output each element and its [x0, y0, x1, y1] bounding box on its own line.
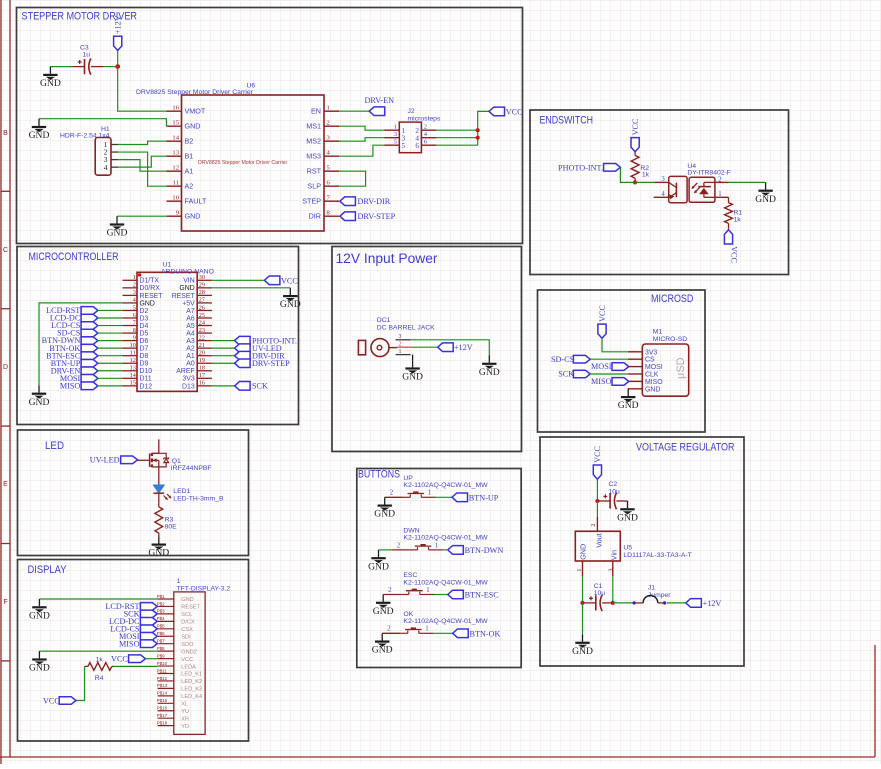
net flag +12V (DC1)	[438, 343, 473, 352]
wire PHOTO-INT to node	[620, 167, 635, 182]
wire LCD-CS to U1	[98, 325, 123, 327]
svg-text:SD-CS: SD-CS	[551, 355, 575, 364]
svg-text:GND: GND	[578, 544, 587, 560]
svg-text:GND: GND	[179, 285, 194, 292]
svg-text:30: 30	[199, 274, 205, 281]
svg-text:GND: GND	[479, 367, 500, 378]
svg-text:MS3: MS3	[306, 152, 321, 161]
svg-text:GND: GND	[280, 299, 301, 310]
svg-text:24: 24	[199, 319, 205, 326]
wire SD-CS to CS	[590, 358, 628, 360]
ground at OK	[372, 633, 393, 655]
svg-text:A2: A2	[186, 346, 195, 353]
svg-text:GND: GND	[181, 597, 193, 603]
svg-text:4: 4	[104, 163, 108, 172]
svg-text:P$17: P$17	[157, 713, 168, 718]
wire U1 GND pin29	[212, 287, 290, 289]
svg-text:GND: GND	[368, 561, 389, 572]
regulator U5 LD1117AL-33-TA3-A-T	[575, 524, 691, 577]
svg-text:GND: GND	[645, 386, 660, 393]
transistor Q1 IRFZ44NPBF	[138, 439, 212, 471]
net flag BTN-OK (U1)	[49, 344, 98, 353]
wire LED1 to R3	[158, 493, 160, 507]
svg-text:CSX: CSX	[181, 627, 193, 633]
supply VCC (microsd)	[598, 305, 607, 339]
net flag DRV-STEP at DIR	[340, 212, 396, 221]
svg-text:4: 4	[133, 297, 136, 304]
net flag MOSI (TFT)	[119, 632, 157, 641]
svg-text:A4: A4	[186, 330, 195, 337]
svg-text:ESC: ESC	[403, 572, 417, 579]
svg-text:1: 1	[425, 626, 428, 633]
wire RST to SLP	[339, 171, 366, 186]
svg-text:2: 2	[387, 626, 391, 633]
svg-text:1: 1	[399, 349, 402, 355]
svg-text:RESET: RESET	[172, 293, 196, 300]
svg-text:1: 1	[718, 191, 721, 198]
optical interrupter U4 DY-ITR8402-F	[654, 163, 731, 203]
svg-text:1: 1	[428, 490, 431, 497]
svg-text:C: C	[3, 247, 8, 254]
led block frame	[18, 430, 249, 556]
svg-text:D3: D3	[140, 315, 149, 322]
svg-text:14: 14	[172, 134, 179, 141]
net flag BTN-UP (U1)	[51, 359, 98, 368]
ground at DWN	[368, 550, 389, 572]
wire MISO to U1	[98, 385, 123, 387]
svg-text:J2: J2	[408, 108, 415, 115]
wire H1 pin1 to B2	[118, 141, 166, 144]
svg-text:GND: GND	[572, 646, 593, 657]
svg-text:LEDA: LEDA	[181, 664, 196, 670]
svg-text:Vin: Vin	[609, 550, 618, 560]
svg-text:GND: GND	[374, 509, 395, 520]
svg-text:DRV8825 Stepper Motor Driver C: DRV8825 Stepper Motor Driver Carrier	[198, 160, 288, 166]
wire VCC to 3V3	[602, 338, 628, 352]
svg-text:D12: D12	[140, 383, 153, 390]
wire gnd to C3	[50, 66, 73, 68]
svg-text:23: 23	[199, 327, 205, 334]
ground at TFT P$1	[29, 599, 50, 621]
svg-text:25: 25	[199, 312, 205, 319]
wire U1 GND pin4	[39, 303, 123, 386]
svg-text:ENDSWITCH: ENDSWITCH	[540, 115, 594, 127]
wire SCK to CLK	[590, 373, 628, 375]
net flag SD-CS (U1)	[57, 329, 98, 338]
svg-text:MISO: MISO	[60, 381, 81, 390]
ground at U1 pin29	[280, 288, 301, 310]
svg-text:D11: D11	[140, 376, 152, 383]
wire MS3 to J2 pin5	[339, 145, 385, 156]
wire DWN to flag	[443, 549, 448, 551]
svg-text:1: 1	[133, 274, 136, 281]
net flag VCC (J2)	[489, 107, 523, 116]
svg-text:B2: B2	[185, 137, 194, 146]
svg-text:6: 6	[415, 142, 419, 150]
svg-text:UV-LED: UV-LED	[90, 456, 120, 465]
svg-text:B: B	[3, 130, 8, 137]
svg-text:1k: 1k	[734, 217, 742, 224]
wire DRV-EN to U1	[98, 370, 123, 372]
wire A pin to UV-LED	[212, 347, 235, 349]
ground at pin 15	[29, 119, 50, 141]
wire R3 to gnd	[158, 533, 160, 536]
svg-text:VCC: VCC	[506, 107, 523, 116]
svg-text:VIN: VIN	[183, 278, 195, 285]
svg-text:+12V: +12V	[454, 343, 473, 352]
svg-text:SCK: SCK	[558, 370, 574, 379]
svg-text:P$8: P$8	[157, 646, 165, 651]
svg-text:P$12: P$12	[157, 676, 168, 681]
svg-text:SCL: SCL	[181, 612, 192, 618]
svg-text:MISO: MISO	[591, 377, 612, 386]
wire H1 pin2 to A2	[118, 152, 166, 186]
wire DC1 pin1 to gnd	[412, 355, 414, 361]
svg-text:5: 5	[133, 304, 136, 311]
ground at U1 pin4	[29, 385, 50, 407]
wire GND pin 15	[39, 119, 166, 127]
microcontroller block frame	[17, 247, 299, 425]
supply VCC (R2)	[631, 118, 640, 152]
net flag +12V (vreg)	[686, 599, 722, 608]
svg-text:F: F	[3, 599, 7, 606]
svg-text:D5: D5	[140, 330, 149, 337]
svg-text:LD1117AL-33-TA3-A-T: LD1117AL-33-TA3-A-T	[623, 552, 691, 559]
svg-text:2: 2	[718, 176, 722, 183]
ground at M1	[618, 389, 639, 411]
junction J2 row2	[476, 136, 480, 140]
net flag DRV-DIR at STEP	[340, 197, 391, 206]
svg-text:K2-1102AQ-Q4CW-01_MW: K2-1102AQ-Q4CW-01_MW	[403, 618, 488, 625]
svg-text:28: 28	[199, 289, 205, 296]
svg-text:D1/TX: D1/TX	[140, 278, 160, 285]
svg-text:80E: 80E	[165, 524, 178, 531]
svg-text:P$2: P$2	[157, 601, 165, 606]
svg-text:1: 1	[435, 542, 438, 549]
net flag MOSI (U1)	[60, 374, 98, 383]
wire EN to flag	[339, 110, 369, 112]
buttons block frame	[357, 469, 521, 668]
svg-text:GND: GND	[185, 212, 201, 221]
ground at pin 9	[107, 216, 128, 238]
svg-text:D2: D2	[140, 308, 149, 315]
net flag VCC (R4)	[43, 696, 76, 705]
net flag LCD-CS (U1)	[51, 321, 98, 330]
svg-text:E: E	[3, 481, 8, 488]
svg-text:BTN-OK: BTN-OK	[470, 629, 501, 638]
svg-text:DIR: DIR	[309, 212, 321, 221]
svg-text:SCK: SCK	[252, 382, 268, 391]
svg-text:14: 14	[130, 372, 136, 379]
svg-text:C3: C3	[80, 45, 89, 52]
svg-text:OK: OK	[403, 611, 413, 618]
wire +12V supply to node	[117, 51, 119, 67]
net flag BTN-ESC (U1)	[46, 351, 98, 360]
wire MOSI to U1	[98, 377, 123, 379]
IC U1 ARDUINO NANO	[123, 262, 214, 392]
net flag BTN-DWN (U1)	[42, 336, 98, 345]
svg-text:2: 2	[388, 587, 392, 594]
svg-text:DRV-EN: DRV-EN	[365, 96, 395, 105]
svg-text:GND: GND	[29, 610, 50, 621]
svg-text:A7: A7	[186, 308, 195, 315]
ground at TFT GND2	[29, 651, 50, 673]
svg-text:VCC: VCC	[181, 657, 193, 663]
svg-text:VCC: VCC	[281, 276, 298, 285]
resistor R4 1k	[85, 657, 115, 683]
svg-text:Vout: Vout	[594, 533, 603, 547]
wire LCD-RST to U1	[98, 309, 123, 311]
stepper motor driver block frame	[17, 8, 523, 244]
svg-text:M1: M1	[653, 329, 663, 336]
svg-text:SDO: SDO	[181, 642, 194, 648]
svg-text:SDI: SDI	[181, 634, 191, 640]
wire GND pin 9	[117, 215, 167, 217]
wire DC1 pin3 to gnd	[411, 340, 490, 356]
net flag LCD-DC (U1)	[50, 314, 98, 323]
svg-text:EN: EN	[311, 107, 321, 116]
net flag DRV-DIR (U1 right)	[235, 351, 286, 360]
supply +12V	[114, 15, 123, 50]
svg-text:MS2: MS2	[306, 137, 321, 146]
wire R4 to VCC	[76, 666, 85, 700]
svg-text:RESET: RESET	[181, 605, 200, 611]
svg-text:GND2: GND2	[181, 649, 197, 655]
endswitch block frame	[530, 110, 789, 275]
svg-text:13: 13	[130, 365, 136, 372]
ground at ESC	[373, 595, 394, 617]
svg-text:27: 27	[199, 297, 205, 304]
wire C1 to gnd	[582, 603, 584, 635]
wire VIN to VCC	[212, 279, 265, 281]
svg-text:A1: A1	[186, 353, 195, 360]
net flag PHOTO-INT.	[558, 163, 620, 172]
net flag BTN-DWN	[448, 546, 504, 555]
svg-text:P$11: P$11	[157, 668, 167, 673]
svg-text:MOSI: MOSI	[645, 364, 663, 371]
svg-text:22: 22	[199, 334, 205, 341]
wire VCC flag to TFT	[145, 658, 157, 660]
svg-text:GND: GND	[617, 512, 638, 523]
svg-text:MICROSD: MICROSD	[651, 293, 694, 305]
svg-text:A5: A5	[186, 323, 195, 330]
wire OK to flag	[433, 632, 452, 634]
svg-text:A1: A1	[185, 167, 194, 176]
wire Vin node to J1	[613, 602, 635, 604]
junction C1 left	[580, 601, 584, 605]
net flag SCK (TFT)	[124, 610, 158, 619]
resistor R1 1k	[725, 197, 743, 230]
wire LCD-DC to U1	[98, 317, 123, 319]
svg-text:DC1: DC1	[377, 317, 391, 324]
svg-text:13: 13	[172, 149, 179, 156]
net flag MOSI (M1)	[591, 362, 629, 371]
junction R2/PHOTO-INT	[633, 180, 637, 184]
svg-text:16: 16	[172, 104, 179, 111]
svg-text:YD: YD	[181, 724, 189, 730]
svg-text:GND: GND	[140, 300, 155, 307]
display block frame	[18, 560, 249, 742]
svg-text:P$10: P$10	[157, 661, 168, 666]
svg-text:STEP: STEP	[302, 197, 321, 206]
svg-text:LED_K4: LED_K4	[181, 694, 202, 700]
svg-text:MISO: MISO	[119, 639, 140, 648]
svg-text:LED_K3: LED_K3	[181, 687, 202, 693]
svg-text:D9: D9	[140, 361, 149, 368]
svg-text:MOSI: MOSI	[591, 362, 612, 371]
svg-text:MICRO-SD: MICRO-SD	[653, 336, 687, 343]
net flag BTN-OK	[453, 629, 501, 638]
wire A pin to DRV-DIR	[212, 355, 235, 357]
svg-text:GND: GND	[40, 78, 61, 89]
svg-text:XR: XR	[181, 716, 189, 722]
net flag SCK (M1)	[558, 370, 590, 379]
net flag DRV-EN	[365, 96, 395, 116]
junction C2	[595, 499, 599, 503]
microsd block frame	[538, 290, 706, 432]
svg-text:1: 1	[327, 104, 330, 111]
svg-text:A0: A0	[186, 361, 195, 368]
svg-text:VCC: VCC	[111, 654, 128, 663]
svg-text:GND: GND	[618, 400, 639, 411]
module TFT-DISPLAY-3.2	[157, 578, 231, 734]
svg-text:2: 2	[399, 342, 402, 348]
wire BTN-UP to U1	[98, 362, 123, 364]
wire TFT GND2 to gnd	[39, 650, 157, 652]
LED LED1 LED-TH-3mm_B	[153, 484, 224, 502]
svg-text:18: 18	[199, 365, 205, 372]
svg-text:LED1: LED1	[173, 488, 190, 495]
capacitor C1 10u	[583, 583, 613, 611]
net flag BTN-UP	[452, 493, 499, 502]
svg-text:2: 2	[424, 124, 427, 131]
svg-text:XL: XL	[181, 702, 188, 708]
wire ESC to flag	[434, 594, 447, 596]
wire BTN-OK to U1	[98, 347, 123, 349]
svg-text:5: 5	[402, 142, 406, 150]
svg-text:BTN-UP: BTN-UP	[469, 493, 499, 502]
svg-text:CLK: CLK	[645, 372, 659, 379]
svg-text:HDR-F-2.54 1x4: HDR-F-2.54 1x4	[60, 133, 110, 140]
pushbutton DWN K2-1102AQ-Q4CW-01_MW	[379, 527, 489, 550]
ground at C2	[617, 501, 638, 523]
capacitor C3 1u	[73, 45, 103, 75]
svg-text:2: 2	[390, 490, 394, 497]
wire node to U5 Vout	[596, 501, 598, 531]
svg-text:GND: GND	[107, 228, 128, 239]
svg-text:+12V: +12V	[114, 15, 123, 34]
svg-text:10: 10	[130, 342, 136, 349]
svg-text:1k: 1k	[96, 657, 104, 664]
svg-text:2: 2	[327, 119, 330, 126]
svg-text:12V Input Power: 12V Input Power	[336, 251, 439, 266]
svg-text:12: 12	[172, 164, 179, 171]
svg-text:D: D	[3, 364, 8, 371]
svg-text:J1: J1	[648, 585, 655, 592]
svg-text:2: 2	[590, 524, 597, 527]
svg-text:15: 15	[130, 380, 136, 387]
svg-text:D10: D10	[140, 368, 153, 375]
svg-text:D8: D8	[140, 353, 149, 360]
svg-text:A3: A3	[186, 338, 195, 345]
svg-text:7: 7	[133, 319, 136, 326]
svg-text:10: 10	[172, 194, 179, 201]
svg-text:10u: 10u	[594, 590, 606, 597]
svg-text:C2: C2	[609, 481, 618, 488]
svg-text:26: 26	[199, 304, 205, 311]
svg-text:DC BARREL JACK: DC BARREL JACK	[377, 325, 435, 332]
svg-text:P$15: P$15	[157, 698, 168, 703]
svg-text:DRV-STEP: DRV-STEP	[358, 212, 396, 221]
ground at C3	[40, 67, 61, 89]
svg-text:1: 1	[177, 578, 181, 585]
svg-text:GND: GND	[185, 122, 201, 131]
svg-text:U5: U5	[623, 545, 632, 552]
net flag MISO (U1)	[60, 381, 98, 390]
pushbutton ESC K2-1102AQ-Q4CW-01_MW	[383, 572, 488, 595]
svg-text:P$4: P$4	[157, 616, 165, 621]
connector H1 HDR-F-2.54 1x4	[60, 126, 118, 175]
junction node +12V	[115, 64, 120, 69]
svg-text:GND: GND	[29, 397, 50, 408]
svg-text:GND: GND	[148, 548, 169, 559]
svg-text:1k: 1k	[642, 172, 650, 179]
wire A pin to SCK	[212, 385, 235, 387]
svg-text:VCC: VCC	[43, 696, 60, 705]
wire BTN-ESC to U1	[98, 355, 123, 357]
module M1 MICRO-SD	[628, 329, 689, 397]
svg-text:11: 11	[173, 179, 179, 186]
svg-text:17: 17	[199, 372, 205, 379]
wire DC1 pin2 to +12V	[411, 346, 438, 348]
svg-text:20: 20	[199, 350, 205, 357]
supply VCC (R1)	[724, 230, 738, 264]
svg-text:K2-1102AQ-Q4CW-01_MW: K2-1102AQ-Q4CW-01_MW	[403, 535, 488, 542]
svg-text:R1: R1	[734, 210, 743, 217]
voltage regulator block frame	[540, 437, 744, 666]
svg-text:DRV8825 Stepper Motor Driver C: DRV8825 Stepper Motor Driver Carrier	[136, 89, 254, 96]
svg-text:MISO: MISO	[645, 379, 663, 386]
svg-text:MS1: MS1	[306, 122, 321, 131]
svg-text:2: 2	[397, 542, 401, 549]
svg-text:P$1: P$1	[157, 594, 165, 599]
svg-text:D4: D4	[140, 323, 149, 330]
supply VCC (vreg)	[593, 445, 602, 479]
svg-text:RST: RST	[307, 167, 322, 176]
pushbutton OK K2-1102AQ-Q4CW-01_MW	[382, 611, 488, 634]
svg-text:P$13: P$13	[157, 683, 168, 688]
svg-text:3V3: 3V3	[645, 349, 657, 356]
net flag MISO (TFT)	[119, 639, 157, 648]
svg-text:GND: GND	[29, 130, 50, 141]
connector DC1 DC BARREL JACK	[358, 317, 435, 357]
svg-text:K2-1102AQ-Q4CW-01_MW: K2-1102AQ-Q4CW-01_MW	[403, 482, 488, 489]
svg-text:P$14: P$14	[157, 691, 168, 696]
svg-text:P$16: P$16	[157, 706, 168, 711]
svg-text:DISPLAY: DISPLAY	[28, 564, 67, 576]
svg-text:IRFZ44NPBF: IRFZ44NPBF	[171, 465, 212, 472]
svg-text:BTN-DWN: BTN-DWN	[465, 546, 504, 555]
ground at DC1 pin3	[479, 356, 500, 378]
svg-text:ARDUINO NANO: ARDUINO NANO	[161, 268, 214, 275]
svg-text:1: 1	[576, 569, 583, 572]
net flag LCD-RST (U1)	[46, 306, 98, 315]
svg-text:6: 6	[133, 312, 136, 319]
svg-text:LED_K2: LED_K2	[181, 679, 202, 685]
ground at U4 pin2	[755, 182, 776, 204]
svg-text:3: 3	[399, 334, 402, 340]
net flag SCK (U1 right)	[235, 382, 268, 391]
